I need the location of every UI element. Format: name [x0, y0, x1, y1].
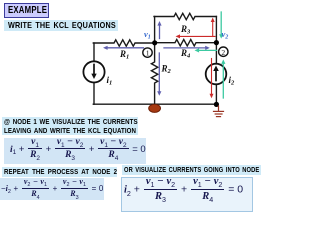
- svg-text:R3: R3: [180, 24, 191, 36]
- wire: bottom wire: [93, 103, 216, 105]
- svg-text:2: 2: [221, 48, 225, 57]
- blue arrow: current leaving node1 down R2: [158, 53, 160, 92]
- EXAMPLE title box: [4, 3, 49, 18]
- caption: node 1 explanation: [2, 117, 138, 135]
- resistor R4: [155, 40, 217, 46]
- svg-text:R1: R1: [119, 49, 129, 61]
- caption: or visualize currents going into node: [122, 165, 261, 176]
- node 2 junction dot: [214, 40, 219, 45]
- wire: left branch bottom segment: [93, 83, 95, 105]
- red arrow: current leaving node2 up toward R3: [212, 21, 214, 37]
- current source i2 arrow: [215, 70, 217, 81]
- caption: WRITE THE KCL EQUATIONS: [4, 20, 118, 31]
- current source i2 circle: [206, 64, 227, 85]
- svg-text:v2: v2: [222, 29, 229, 41]
- resistor R2 (vertical): [151, 43, 157, 104]
- blue arrow: current leaving node1 through R4: [164, 47, 207, 49]
- equation 1 box: [4, 138, 146, 164]
- svg-text:v1: v1: [144, 29, 151, 41]
- equation 3 box: [121, 177, 253, 212]
- svg-text:1: 1: [146, 49, 150, 58]
- bottom right junction dot: [214, 102, 219, 107]
- cyan arrow: current into node2 through R4: [198, 49, 217, 51]
- ground symbol: [214, 106, 224, 117]
- caption: repeat at node 2: [2, 167, 117, 177]
- red arrow: current leaving node2 left through R4: [179, 35, 215, 37]
- cyan arrow: current into node2 from top: [220, 12, 222, 35]
- red arrow: current leaving node2 down (i2 branch): [211, 59, 213, 95]
- wire: node2 riser: [215, 17, 217, 64]
- node label circle 2: [219, 47, 228, 56]
- equation 2 box: [0, 178, 104, 200]
- blue arrow: current leaving node1 through R1: [106, 47, 144, 49]
- current source i1 arrow: [93, 65, 95, 75]
- svg-text:R4: R4: [180, 48, 191, 60]
- wire: node1 riser: [154, 17, 156, 44]
- node label circle 1: [143, 48, 152, 57]
- svg-text:i1: i1: [107, 75, 113, 87]
- svg-text:i2: i2: [229, 75, 236, 87]
- blue arrow: current leaving node1 up to R3: [159, 24, 161, 39]
- wire: left branch top segment: [93, 43, 95, 61]
- resistor R3 (top wire): [154, 13, 216, 19]
- current source i1 circle: [83, 61, 104, 82]
- wire: node2 to i2 bottom: [215, 84, 217, 104]
- node 1 junction dot: [152, 40, 157, 45]
- svg-text:R2: R2: [161, 64, 172, 76]
- cyan arrow: current into node2 from below (i2): [222, 63, 224, 98]
- resistor R1: [93, 40, 155, 46]
- ground reference ellipse (node 3): [149, 104, 161, 112]
